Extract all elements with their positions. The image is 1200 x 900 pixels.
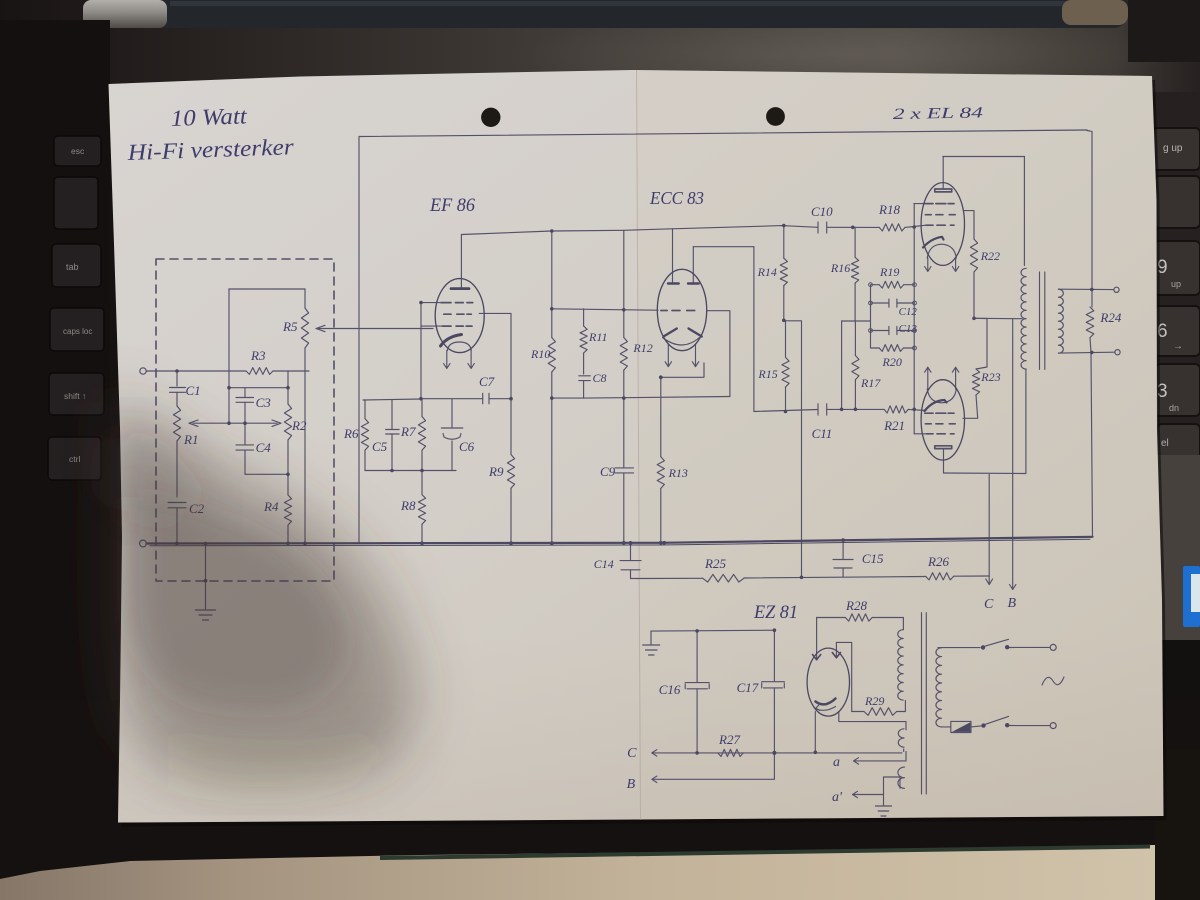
svg-text:ECC 83: ECC 83: [649, 188, 704, 208]
svg-text:C10: C10: [811, 204, 833, 219]
svg-text:R6: R6: [343, 426, 359, 441]
svg-text:C: C: [984, 597, 994, 612]
svg-text:R8: R8: [400, 498, 416, 513]
svg-text:R15: R15: [757, 367, 777, 381]
svg-text:C3: C3: [256, 395, 272, 410]
svg-text:caps loc: caps loc: [63, 327, 92, 336]
svg-text:a': a': [832, 790, 843, 805]
svg-text:ctrl: ctrl: [69, 454, 80, 464]
svg-text:R19: R19: [879, 265, 899, 279]
svg-text:R16: R16: [830, 261, 850, 275]
svg-text:C5: C5: [372, 439, 388, 454]
svg-text:R18: R18: [878, 202, 900, 217]
svg-text:C17: C17: [737, 680, 759, 695]
svg-text:R10: R10: [530, 347, 550, 361]
svg-text:a: a: [833, 755, 840, 770]
svg-text:10 Watt: 10 Watt: [170, 103, 247, 131]
svg-text:C15: C15: [862, 551, 884, 566]
svg-text:R5: R5: [282, 319, 298, 334]
svg-text:R25: R25: [704, 556, 726, 571]
svg-text:EF 86: EF 86: [429, 195, 475, 216]
svg-text:C13: C13: [899, 323, 918, 335]
svg-text:C: C: [627, 746, 637, 761]
svg-text:R23: R23: [980, 370, 1000, 384]
svg-text:B: B: [627, 777, 636, 792]
svg-text:g up: g up: [1163, 143, 1183, 154]
svg-text:R17: R17: [860, 376, 881, 390]
svg-text:EZ 81: EZ 81: [753, 602, 798, 623]
svg-text:R27: R27: [718, 732, 740, 747]
svg-text:C9: C9: [600, 464, 616, 479]
svg-text:R26: R26: [927, 554, 949, 569]
svg-text:R12: R12: [632, 341, 652, 355]
svg-text:R22: R22: [980, 249, 1000, 263]
svg-text:C6: C6: [459, 439, 475, 454]
svg-text:B: B: [1008, 596, 1017, 611]
svg-text:R9: R9: [488, 464, 504, 479]
svg-text:dn: dn: [1169, 403, 1179, 413]
svg-text:C12: C12: [899, 306, 918, 318]
svg-text:el: el: [1161, 438, 1169, 449]
svg-text:C16: C16: [659, 682, 681, 697]
svg-text:2 x EL 84: 2 x EL 84: [893, 104, 984, 123]
svg-text:C4: C4: [256, 440, 272, 455]
svg-text:R2: R2: [291, 418, 307, 433]
svg-text:R21: R21: [883, 418, 905, 433]
svg-text:tab: tab: [66, 262, 79, 272]
svg-text:R28: R28: [845, 598, 867, 613]
svg-text:C11: C11: [812, 426, 833, 441]
svg-text:C7: C7: [479, 374, 495, 389]
svg-text:→: →: [1173, 341, 1183, 352]
svg-text:up: up: [1171, 279, 1181, 289]
svg-text:C8: C8: [593, 371, 607, 385]
svg-text:R20: R20: [882, 355, 902, 369]
svg-text:R11: R11: [588, 330, 607, 344]
svg-text:R29: R29: [864, 694, 884, 708]
svg-text:R7: R7: [400, 424, 416, 439]
svg-text:C1: C1: [186, 383, 201, 398]
svg-text:R13: R13: [668, 466, 688, 480]
svg-text:R14: R14: [757, 265, 777, 279]
svg-text:esc: esc: [71, 146, 85, 156]
svg-text:shift ↑: shift ↑: [64, 391, 86, 401]
svg-text:R3: R3: [250, 348, 266, 363]
svg-text:C14: C14: [594, 557, 614, 571]
svg-text:R24: R24: [1099, 310, 1121, 325]
